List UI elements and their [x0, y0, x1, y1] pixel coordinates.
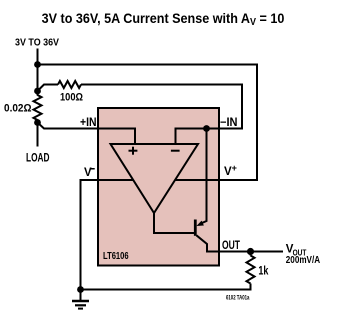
svg-text:100Ω: 100Ω: [60, 91, 83, 103]
svg-text:3V to 36V, 5A Current Sense wi: 3V to 36V, 5A Current Sense with AV = 10: [42, 10, 285, 28]
svg-text:200mV/A: 200mV/A: [286, 255, 320, 266]
svg-text:1k: 1k: [258, 266, 268, 278]
svg-text:OUT: OUT: [222, 240, 240, 252]
svg-text:LOAD: LOAD: [26, 153, 50, 165]
svg-text:3V TO 36V: 3V TO 36V: [15, 37, 59, 48]
svg-text:V: V: [84, 167, 92, 179]
svg-text:−IN: −IN: [220, 117, 238, 129]
svg-text:6102 TA01a: 6102 TA01a: [226, 294, 250, 301]
svg-text:+IN: +IN: [80, 117, 97, 129]
svg-text:LT6106: LT6106: [103, 251, 129, 262]
svg-text:+: +: [232, 163, 237, 173]
svg-text:0.02Ω: 0.02Ω: [4, 102, 32, 114]
